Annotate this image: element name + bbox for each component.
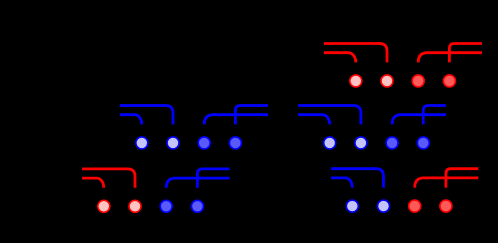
node A3	[412, 75, 424, 87]
node A1	[350, 75, 362, 87]
group B (blue, middle-left)	[120, 106, 268, 125]
wire A second binder	[324, 53, 356, 63]
wire E hook from node E4	[446, 169, 478, 188]
wire C top binder	[298, 106, 361, 125]
node E4	[440, 200, 452, 212]
node B3	[198, 137, 210, 149]
wire D second binder	[82, 178, 104, 188]
wire E second binder	[331, 178, 352, 188]
node A4	[443, 75, 455, 87]
node D3	[160, 200, 172, 212]
wire C hook from node C4	[423, 106, 446, 125]
wire B second binder	[120, 115, 142, 125]
wire C second binder	[298, 115, 330, 125]
wire B hook from node B4	[235, 106, 268, 125]
group E (blue+red, bottom-right)	[331, 169, 383, 188]
wire C arc from node C3	[392, 115, 446, 125]
node C2	[355, 137, 367, 149]
node E1	[346, 200, 358, 212]
group D (red+blue, bottom-left)	[82, 169, 135, 188]
group A (red, top-right)	[324, 44, 482, 63]
node D2	[129, 200, 141, 212]
wire B arc from node B3	[204, 115, 268, 125]
wire B top binder	[120, 106, 173, 125]
node C4	[417, 137, 429, 149]
wire D hook from node D4	[197, 169, 229, 188]
wire E arc from node E3	[415, 178, 479, 188]
node B4	[229, 137, 241, 149]
node E3	[409, 200, 421, 212]
wire A top binder	[324, 44, 387, 63]
wire A arc from node A3	[418, 53, 482, 63]
node D1	[98, 200, 110, 212]
node D4	[191, 200, 203, 212]
group C (blue, middle-right)	[298, 106, 446, 125]
wire A hook from node A4	[449, 44, 482, 63]
node A2	[381, 75, 393, 87]
wire E top binder	[331, 169, 383, 188]
node C3	[386, 137, 398, 149]
node E2	[378, 200, 390, 212]
node C1	[324, 137, 336, 149]
node B2	[167, 137, 179, 149]
wire D top binder	[82, 169, 135, 188]
wire D arc from node D3	[166, 178, 229, 188]
node B1	[136, 137, 148, 149]
